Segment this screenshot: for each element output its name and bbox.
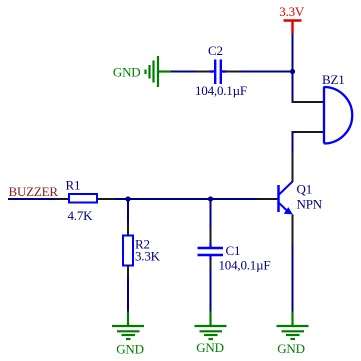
wire junction down to C1: [210, 199, 212, 229]
wire junction down to buzzer pin: [292, 72, 294, 103]
capacitor C2: [210, 60, 227, 85]
node junction dot at C1: [208, 196, 213, 201]
wire GND to C2: [171, 71, 197, 73]
svg-text:Q1: Q1: [297, 182, 313, 197]
svg-text:104,0.1µF: 104,0.1µF: [219, 258, 271, 273]
wire C2 to junction: [241, 71, 293, 73]
ground symbol (under C1): [195, 312, 227, 340]
pin R1 left: [54, 198, 69, 200]
pin C2 right: [226, 71, 241, 73]
pin C1 top: [210, 229, 212, 244]
wire junction down to R2: [127, 199, 129, 222]
svg-text:GND: GND: [113, 65, 141, 80]
svg-text:3.3K: 3.3K: [135, 249, 161, 264]
svg-text:104,0.1µF: 104,0.1µF: [195, 83, 247, 98]
pin BZ1 bottom: [292, 131, 325, 133]
pin BZ1 top: [292, 101, 325, 103]
node junction dot at 3.3V/C2: [290, 69, 295, 74]
svg-text:4.7K: 4.7K: [68, 208, 94, 223]
pin Q1 emitter: [292, 215, 294, 246]
resistor R1: [69, 194, 97, 203]
svg-text:3.3V: 3.3V: [279, 4, 305, 19]
svg-text:NPN: NPN: [297, 197, 323, 212]
resistor R2: [123, 236, 133, 266]
svg-text:GND: GND: [277, 341, 305, 356]
ground symbol (left, rotated): [146, 56, 172, 87]
wire C1 to ground: [210, 268, 212, 312]
wire R1 to transistor base: [115, 198, 257, 200]
svg-text:GND: GND: [116, 342, 144, 357]
pin C2 left: [197, 71, 211, 73]
ground symbol (under Q1 emitter): [277, 312, 309, 340]
wire buzzer bottom pin down: [292, 132, 294, 152]
wire R2 to ground: [127, 278, 129, 312]
svg-text:BUZZER: BUZZER: [9, 184, 59, 199]
wire BUZZER to R1: [8, 198, 54, 200]
pin Q1 base: [257, 198, 278, 200]
pin R2 top: [127, 222, 129, 236]
power 3.3V bar symbol: [284, 21, 302, 34]
svg-text:C2: C2: [208, 43, 223, 58]
ground symbol (under R2): [112, 312, 144, 340]
pin C1 bottom: [210, 260, 212, 269]
pin Q1 collector: [292, 152, 294, 182]
capacitor C1: [198, 243, 224, 260]
wire emitter to ground: [292, 245, 294, 312]
svg-text:GND: GND: [196, 340, 224, 355]
transistor Q1: [279, 182, 293, 214]
svg-text:BZ1: BZ1: [322, 72, 345, 87]
buzzer BZ1: [324, 87, 352, 144]
svg-text:C1: C1: [226, 243, 241, 258]
svg-text:R1: R1: [66, 178, 81, 193]
pin R2 bottom: [127, 266, 129, 279]
wire 3.3V to junction: [292, 34, 294, 72]
node junction dot at R2: [125, 196, 130, 201]
pin R1 right: [97, 198, 115, 200]
